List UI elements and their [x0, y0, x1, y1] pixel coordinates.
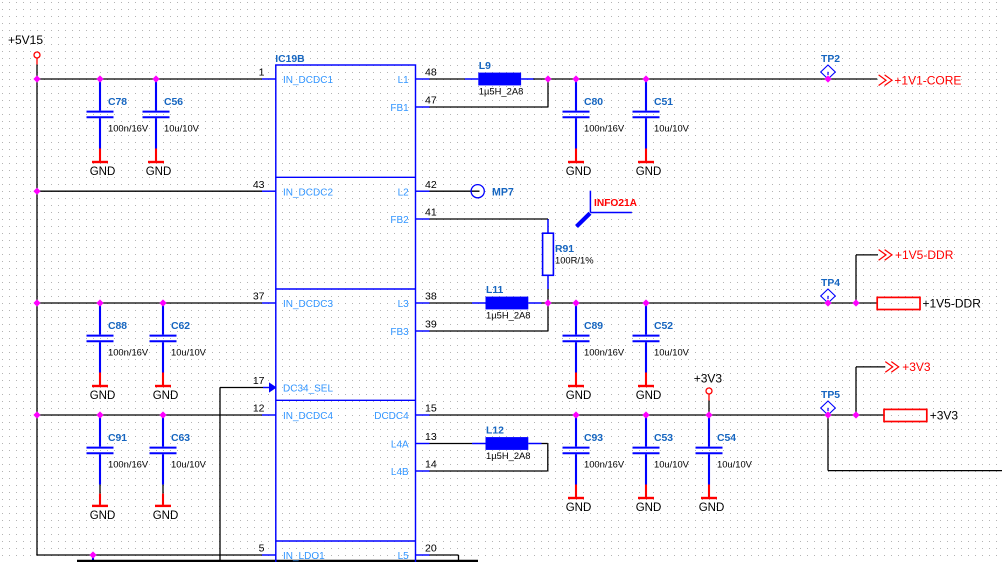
pin 14 L4B	[391, 459, 437, 479]
svg-text:GND: GND	[566, 390, 592, 402]
wire R91 top lead	[547, 219, 549, 233]
ground of C62	[153, 386, 179, 402]
svg-text:C62: C62	[171, 321, 190, 332]
junction C53	[642, 411, 649, 418]
svg-text:17: 17	[253, 375, 265, 387]
test point TP4	[821, 278, 841, 303]
svg-text:+1V5-DDR: +1V5-DDR	[895, 248, 954, 262]
wire FB2 to R91	[430, 219, 549, 220]
svg-text:+3V3: +3V3	[694, 372, 723, 386]
svg-text:DCDC4: DCDC4	[374, 411, 409, 422]
svg-text:47: 47	[425, 95, 437, 107]
pin 48 L1	[398, 67, 437, 87]
svg-text:FB3: FB3	[390, 327, 409, 338]
test point TP5	[821, 390, 841, 415]
ground of C88	[90, 386, 116, 402]
svg-text:10u/10V: 10u/10V	[164, 123, 200, 134]
resistor R91	[543, 233, 594, 275]
svg-text:TP2: TP2	[821, 54, 840, 65]
capacitor C52	[633, 304, 690, 385]
svg-text:43: 43	[253, 179, 265, 191]
pin 47 FB1	[390, 95, 436, 115]
svg-text:14: 14	[425, 459, 437, 471]
capacitor C93	[563, 416, 625, 497]
capacitor C91	[87, 416, 149, 505]
svg-text:IN_DCDC4: IN_DCDC4	[283, 411, 333, 422]
svg-text:C78: C78	[108, 97, 127, 108]
svg-text:FB2: FB2	[390, 215, 409, 226]
net tie +3V3	[884, 409, 958, 423]
svg-text:GND: GND	[90, 510, 116, 522]
svg-text:42: 42	[425, 179, 437, 191]
wire L9 to junction	[533, 78, 548, 80]
wire row1 junction to net +1V1-CORE	[548, 78, 877, 80]
svg-text:IN_DCDC1: IN_DCDC1	[283, 75, 333, 86]
svg-text:39: 39	[425, 319, 437, 331]
svg-text:+3V3: +3V3	[902, 360, 931, 374]
svg-text:100n/16V: 100n/16V	[584, 459, 625, 470]
svg-text:100n/16V: 100n/16V	[108, 347, 149, 358]
wire pin 20 down	[430, 555, 459, 562]
mount point MP7	[471, 185, 514, 199]
svg-text:C54: C54	[717, 433, 736, 444]
sheet frame line bottom	[77, 560, 478, 562]
wire FB3 feedback	[430, 303, 549, 331]
svg-text:IN_DCDC2: IN_DCDC2	[283, 187, 333, 198]
svg-text:100n/16V: 100n/16V	[584, 123, 625, 134]
svg-text:15: 15	[425, 403, 437, 415]
pin 42 L2	[398, 179, 437, 199]
svg-text:10u/10V: 10u/10V	[654, 459, 690, 470]
svg-text:IC19B: IC19B	[275, 54, 305, 65]
svg-text:C88: C88	[108, 321, 127, 332]
svg-text:IN_DCDC3: IN_DCDC3	[283, 299, 333, 310]
svg-text:20: 20	[425, 543, 437, 555]
svg-text:C52: C52	[654, 321, 673, 332]
ground of C52	[636, 386, 662, 402]
inductor L12	[472, 426, 542, 462]
svg-text:MP7: MP7	[492, 187, 514, 199]
wire row2 trunk to pin 43	[37, 190, 262, 192]
ground of C78	[90, 162, 116, 178]
svg-text:L12: L12	[486, 426, 504, 437]
svg-text:L5: L5	[398, 551, 410, 562]
capacitor C88	[87, 304, 149, 385]
junction C93	[572, 411, 579, 418]
svg-text:DC34_SEL: DC34_SEL	[283, 384, 333, 395]
ground of C80	[566, 162, 592, 178]
capacitor C78	[87, 80, 149, 161]
capacitor C54	[696, 416, 753, 497]
svg-text:100n/16V: 100n/16V	[108, 123, 149, 134]
svg-text:C93: C93	[584, 433, 603, 444]
pin 12 IN_DCDC4	[253, 403, 334, 423]
svg-text:1µ5H_2A8: 1µ5H_2A8	[479, 86, 524, 97]
wire R91 to row3	[547, 289, 549, 303]
svg-text:10u/10V: 10u/10V	[654, 123, 690, 134]
net label +1V1-CORE	[879, 74, 962, 88]
wire row1 trunk to pin 1	[37, 78, 262, 80]
svg-text:TP4: TP4	[821, 278, 840, 289]
svg-text:12: 12	[253, 403, 265, 415]
svg-text:GND: GND	[636, 390, 662, 402]
wire row4 pin 15 to net tie +3V3	[430, 414, 885, 416]
junction trunk row3	[33, 299, 40, 306]
capacitor C62	[150, 304, 207, 385]
junction 3V3 branch	[852, 411, 859, 418]
svg-text:GND: GND	[566, 166, 592, 178]
junction C78	[96, 75, 103, 82]
junction TP2	[824, 75, 831, 82]
net tie +1V5-DDR	[877, 297, 981, 311]
ground of C93	[566, 498, 592, 514]
pin 5 IN_LDO1	[259, 543, 325, 562]
pin 17 DC34_SEL	[253, 375, 334, 395]
ground of C53	[636, 498, 662, 514]
junction TP5	[824, 411, 831, 418]
junction TP4	[824, 299, 831, 306]
capacitor C56	[143, 80, 200, 161]
svg-text:C89: C89	[584, 321, 603, 332]
inductor L11	[472, 285, 542, 321]
pin 37 IN_DCDC3	[253, 291, 334, 311]
svg-text:1: 1	[259, 67, 265, 79]
wire row3 pin 38 to L11	[430, 302, 473, 304]
svg-text:L3: L3	[398, 299, 410, 310]
svg-text:L2: L2	[398, 187, 410, 198]
svg-text:C53: C53	[654, 433, 673, 444]
svg-text:100R/1%: 100R/1%	[555, 255, 594, 266]
junction C91	[96, 411, 103, 418]
junction bottom cap	[89, 551, 96, 558]
svg-text:FB1: FB1	[390, 103, 409, 114]
svg-text:C56: C56	[164, 97, 183, 108]
power symbol +5V15	[8, 33, 43, 65]
svg-text:GND: GND	[153, 510, 179, 522]
svg-text:GND: GND	[90, 166, 116, 178]
junction C54	[705, 411, 712, 418]
junction C56	[152, 75, 159, 82]
pin 43 IN_DCDC2	[253, 179, 334, 199]
capacitor C80	[563, 80, 625, 161]
svg-text:C63: C63	[171, 433, 190, 444]
pin 20 L5	[398, 543, 437, 562]
ground of C54	[699, 498, 725, 514]
junction DDR branch	[852, 299, 859, 306]
svg-text:10u/10V: 10u/10V	[717, 459, 753, 470]
wire pin 42 to MP7	[430, 190, 480, 192]
wire bottom row horizontal	[36, 554, 262, 556]
svg-text:GND: GND	[699, 502, 725, 514]
junction C63	[159, 411, 166, 418]
junction trunk row2	[33, 188, 40, 195]
ground of C63	[153, 506, 179, 522]
pin 38 L3	[398, 291, 437, 311]
svg-text:10u/10V: 10u/10V	[654, 347, 690, 358]
svg-text:L9: L9	[479, 61, 491, 72]
svg-text:IN_LDO1: IN_LDO1	[283, 551, 325, 562]
svg-text:1µ5H_2A8: 1µ5H_2A8	[486, 310, 531, 321]
pin 39 FB3	[390, 319, 436, 339]
svg-text:INFO21A: INFO21A	[594, 198, 638, 209]
svg-text:C51: C51	[654, 97, 673, 108]
svg-text:GND: GND	[636, 502, 662, 514]
ground of C91	[90, 506, 116, 522]
pin 1 IN_DCDC1	[259, 67, 334, 87]
ground of C89	[566, 386, 592, 402]
svg-text:L11: L11	[486, 285, 504, 296]
svg-text:L1: L1	[398, 75, 410, 86]
svg-text:C80: C80	[584, 97, 603, 108]
ground of C51	[636, 162, 662, 178]
op-amp U-block IC19B outline	[276, 65, 416, 562]
capacitor C53	[633, 416, 690, 497]
wire L12 return to pin 14	[430, 444, 548, 472]
svg-text:38: 38	[425, 291, 437, 303]
capacitor C89	[563, 304, 625, 385]
svg-text:L4A: L4A	[391, 440, 409, 451]
inductor L9	[465, 61, 535, 97]
svg-text:GND: GND	[153, 390, 179, 402]
wire row4 trunk to pin 12	[37, 414, 262, 416]
svg-text:TP5: TP5	[821, 390, 840, 401]
net label +1V5-DDR	[879, 248, 954, 262]
wire branch to +1V5-DDR arrow	[856, 255, 878, 303]
svg-text:GND: GND	[636, 166, 662, 178]
svg-text:R91: R91	[555, 244, 574, 255]
wire pin 13 to L12	[430, 443, 473, 445]
wire TP5 branch down right	[828, 415, 1002, 471]
wire row1 pin 48 to L9	[430, 78, 466, 80]
wire +5V15 to trunk	[36, 65, 38, 80]
junction C51	[642, 75, 649, 82]
wire DC34_SEL riser	[220, 388, 263, 562]
svg-text:100n/16V: 100n/16V	[584, 347, 625, 358]
capacitor lead at bottom junction	[92, 556, 94, 562]
svg-text:10u/10V: 10u/10V	[171, 347, 207, 358]
svg-text:5: 5	[259, 543, 265, 555]
svg-text:L4B: L4B	[391, 467, 409, 478]
svg-text:100n/16V: 100n/16V	[108, 459, 149, 470]
junction trunk row1	[33, 75, 40, 82]
pin 13 L4A	[391, 431, 437, 451]
pin 41 FB2	[390, 207, 436, 227]
pin 15 DCDC4	[374, 403, 437, 423]
svg-text:GND: GND	[146, 166, 172, 178]
svg-text:+1V5-DDR: +1V5-DDR	[923, 297, 982, 311]
svg-text:GND: GND	[566, 502, 592, 514]
svg-text:+5V15: +5V15	[8, 33, 43, 47]
ground of C56	[146, 162, 172, 178]
junction C80	[572, 75, 579, 82]
svg-text:37: 37	[253, 291, 265, 303]
junction trunk row4	[33, 411, 40, 418]
junction C52	[642, 299, 649, 306]
junction L9 out	[544, 75, 551, 82]
wire row3 junction to net tie	[548, 302, 877, 304]
svg-text:1µ5H_2A8: 1µ5H_2A8	[486, 450, 531, 461]
junction C88	[96, 299, 103, 306]
junction L11 out	[544, 299, 551, 306]
svg-text:+3V3: +3V3	[930, 409, 959, 423]
junction C62	[159, 299, 166, 306]
power symbol +3V3	[694, 372, 723, 416]
svg-text:13: 13	[425, 431, 437, 443]
wire L11 to junction	[542, 302, 549, 304]
wire branch to +3V3 arrow	[856, 367, 885, 415]
junction C89	[572, 299, 579, 306]
svg-text:48: 48	[425, 67, 437, 79]
wire FB1 feedback	[430, 79, 549, 107]
svg-text:+1V1-CORE: +1V1-CORE	[894, 74, 961, 88]
wire left trunk vertical	[36, 79, 38, 555]
svg-text:GND: GND	[90, 390, 116, 402]
test point TP2	[821, 54, 841, 79]
capacitor C63	[150, 416, 207, 505]
svg-text:10u/10V: 10u/10V	[171, 459, 207, 470]
capacitor C51	[633, 80, 690, 161]
wire row3 trunk to pin 37	[37, 302, 262, 304]
net label +3V3	[885, 360, 931, 374]
info flag INFO21A	[577, 191, 638, 227]
svg-text:C91: C91	[108, 433, 127, 444]
svg-text:41: 41	[425, 207, 437, 219]
